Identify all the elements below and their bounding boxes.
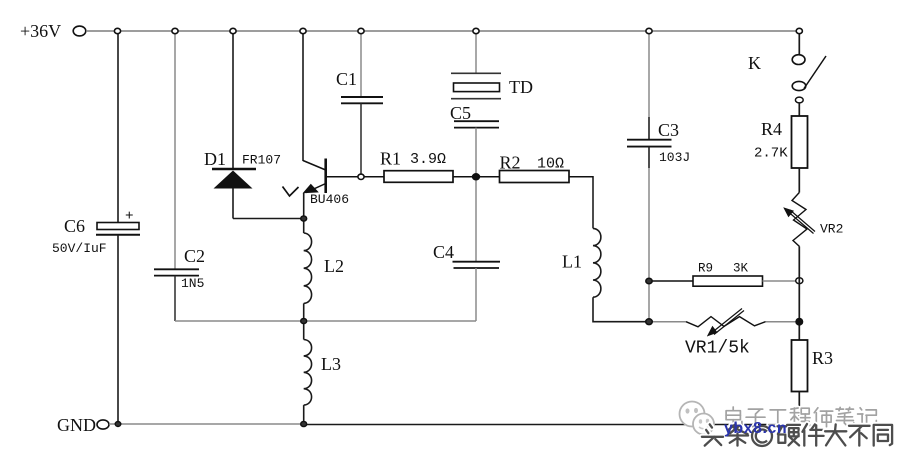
capacitor C4 [433, 242, 500, 268]
wire C3 to R9 node [648, 168, 650, 322]
node junction R1 left [358, 174, 364, 179]
wire C5 down to R1R2 node [475, 128, 477, 177]
wire D1 anode down [232, 188, 234, 219]
node junction L3 ground [301, 421, 307, 426]
wire node down to C4 [475, 177, 477, 262]
diode D1 [204, 149, 281, 189]
node junction C3 VR1 [646, 319, 653, 325]
wire emitter down to L2 [303, 193, 305, 233]
wire node to R3 [798, 322, 800, 340]
wire L3 to ground rail [303, 405, 305, 424]
node junction C6 ground [115, 422, 121, 427]
node junction C3 R9 [646, 278, 652, 284]
potentiometer VR2 [783, 193, 843, 247]
wire C2 column upper [174, 31, 176, 269]
wire bottom ground rail left segment [109, 423, 303, 425]
wire C6 column upper [117, 31, 119, 222]
wire R2 right and down to L1 [569, 177, 593, 229]
node junction VR1 R3 [795, 318, 803, 326]
watermark text ybx8 [724, 420, 787, 438]
wire R9 row left [649, 280, 693, 282]
wire horizontal row y321 from C2 to C4 [175, 320, 476, 322]
transistor Q1 BU406 [283, 159, 350, 208]
wire bottom ground rail right segment [303, 424, 800, 426]
wire R1 to junction [453, 176, 499, 178]
inductor L2 [304, 233, 344, 303]
wire base to R1 [326, 176, 384, 178]
wire K to R4 [798, 103, 800, 116]
node R9 right ring [796, 278, 803, 284]
wire collector column [302, 31, 304, 161]
wire R4 to VR2 [798, 168, 800, 193]
resistor R1 [380, 149, 453, 183]
wire VR2 down through R9 ring [798, 247, 800, 322]
wire D1 column upper [232, 31, 234, 169]
wire R3 to ground rail [798, 392, 800, 425]
wire C6 column lower [117, 235, 119, 424]
node GND terminal [57, 415, 109, 435]
resonator TD [451, 73, 533, 98]
watermark logo faces [672, 398, 732, 443]
node junction dots on top rail [114, 28, 802, 33]
wire VR1 row left approach [649, 321, 686, 323]
wire junction to L3 [303, 321, 305, 340]
inductor L3 [304, 340, 341, 406]
node junction emitter D1 [301, 216, 307, 221]
wire C2 column lower [174, 276, 176, 321]
inductor L1 [562, 228, 601, 297]
capacitor C1 [336, 69, 383, 103]
wire top +36V rail [86, 30, 801, 32]
wire C3 lead upper dark [648, 117, 650, 140]
wire K column from rail [798, 31, 800, 54]
node +36V terminal [20, 21, 86, 41]
wire C1 column upper [360, 31, 362, 97]
resistor R2 [500, 153, 570, 183]
resistor R9 [693, 262, 763, 287]
wire R9 row right [763, 280, 796, 282]
potentiometer VR1 [685, 309, 766, 359]
wire L2 to junction [303, 303, 305, 321]
node junction R1 right [473, 174, 480, 180]
switch K [748, 53, 826, 103]
node junction L2 L3 [301, 318, 307, 323]
capacitor C3 [627, 120, 690, 165]
capacitor C2 [154, 246, 205, 291]
wire L1 down to row [593, 297, 649, 322]
wire C1 column lower [360, 103, 362, 177]
capacitor C5 [450, 103, 499, 128]
wire C3 column upper [648, 31, 650, 117]
wire D1 to emitter node [233, 218, 304, 220]
wire C3 column lower [648, 147, 650, 168]
wire C4 down to row [475, 268, 477, 321]
resistor R3 [792, 340, 834, 392]
wire VR1 row right [766, 321, 801, 323]
wire TD column upper [475, 31, 477, 73]
capacitor C6 [52, 208, 140, 256]
resistor R4 [754, 116, 808, 168]
